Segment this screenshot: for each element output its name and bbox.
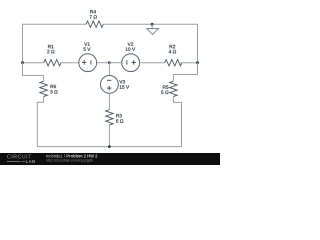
designator label V1 bbox=[84, 43, 90, 46]
footer title bbox=[46, 154, 97, 159]
value label 4 Ohm bbox=[169, 50, 176, 53]
resistor R1 bbox=[44, 45, 61, 66]
resistor R5 bbox=[161, 81, 177, 96]
wire node A jog to R6 bbox=[23, 63, 44, 81]
node D (bottom junction) bbox=[108, 145, 111, 148]
node A (left junction) bbox=[21, 61, 24, 64]
wire V3 to R3 bbox=[108, 93, 110, 109]
resistor R2 bbox=[165, 45, 182, 66]
ground bbox=[147, 23, 159, 35]
value label 15 V bbox=[120, 85, 129, 88]
value label 7 Ohm bbox=[90, 15, 97, 18]
designator label R1 bbox=[48, 45, 54, 48]
value label 10 V bbox=[126, 47, 135, 50]
wire R1 to V1 bbox=[60, 62, 79, 64]
designator label R2 bbox=[170, 45, 176, 48]
resistor R3 bbox=[106, 110, 124, 125]
wire V2 to R2 bbox=[140, 62, 165, 64]
designator label V2 bbox=[128, 42, 134, 45]
value label 5 V bbox=[84, 48, 91, 51]
designator label R5 bbox=[163, 86, 169, 89]
designator label V3 bbox=[119, 80, 125, 83]
wire top-right (R4 to right vertical down to node C) bbox=[103, 24, 197, 63]
node B (center junction) bbox=[108, 61, 111, 64]
footer bar bbox=[0, 153, 220, 165]
voltage source V2 bbox=[122, 42, 140, 71]
footer url bbox=[46, 158, 93, 163]
value label 2 Ohm bbox=[47, 50, 54, 53]
wire node C jog to R5 bbox=[173, 63, 197, 81]
CircuitLab logo rule bbox=[7, 161, 20, 162]
wire R6 to bottom-left vertical bbox=[37, 97, 43, 147]
wire bottom run bbox=[37, 146, 181, 148]
value label 6 Ohm bbox=[116, 119, 123, 122]
CircuitLab logo LAB bbox=[21, 159, 36, 165]
resistor R4 bbox=[86, 10, 103, 27]
voltage source V3 bbox=[101, 76, 130, 94]
designator label R4 bbox=[90, 10, 96, 13]
value label 5 Ohm bbox=[161, 91, 168, 94]
designator label R3 bbox=[116, 114, 122, 117]
wire R5 to bottom-right vertical bbox=[173, 97, 181, 147]
wire middle-left run bbox=[23, 62, 44, 64]
resistor R6 bbox=[40, 81, 58, 96]
wire R2 to node C bbox=[181, 62, 198, 64]
node C (right junction) bbox=[196, 61, 199, 64]
wire R3 to bottom bbox=[108, 125, 110, 147]
CircuitLab logo text CIRCUIT bbox=[7, 154, 32, 160]
voltage source V1 bbox=[79, 43, 97, 72]
designator label R6 bbox=[50, 85, 56, 88]
wire node B to V3 bbox=[108, 63, 110, 76]
wire top-left (left vertical + top run to R4) bbox=[23, 24, 87, 63]
wire V1 to node B bbox=[97, 62, 110, 64]
wire node B to V2 bbox=[109, 62, 121, 64]
value label 3 Ohm bbox=[50, 90, 57, 93]
